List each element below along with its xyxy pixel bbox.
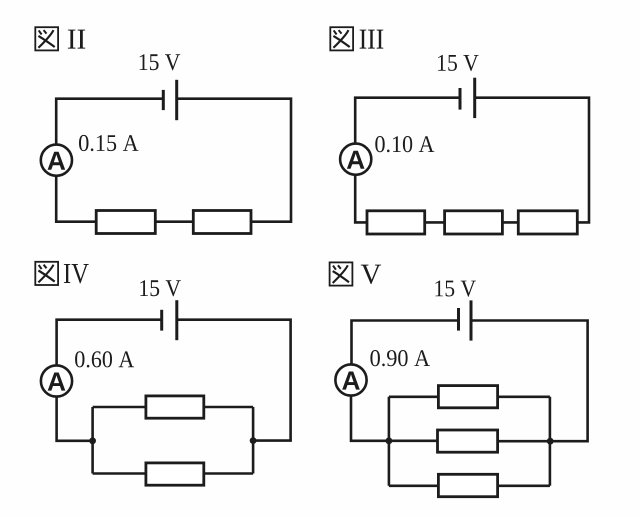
ammeter A1 letter xyxy=(48,152,66,170)
wire top-left run 図III xyxy=(355,98,460,144)
wire top-right + right side 図V xyxy=(471,321,588,442)
ammeter A2 circle xyxy=(340,144,371,175)
resistor R7 (図IV lower box) xyxy=(146,463,204,485)
battery B1 short plate (negative) xyxy=(162,90,165,110)
right branch vertical 図IV xyxy=(252,407,255,474)
wire between resistors 図II xyxy=(155,220,193,223)
label 図 (kanji) for 図V xyxy=(330,262,353,285)
wire bottom branch right stub 図V xyxy=(498,484,550,487)
resistor R3 (図III left box) xyxy=(367,211,425,234)
resistor R10 (図V bottom box) xyxy=(438,474,497,496)
battery B4 short plate (negative) xyxy=(457,308,460,331)
ammeter reading 0.15 A xyxy=(79,135,139,151)
wire left-bottom run 図II xyxy=(56,176,96,222)
ammeter reading 0.90 A xyxy=(370,350,430,366)
left branch vertical 図V xyxy=(388,397,391,486)
battery B4 long plate (positive) xyxy=(470,300,473,340)
ammeter A4 circle xyxy=(335,364,366,395)
wire top-left run 図V xyxy=(352,321,459,365)
wire middle branch right stub 図V xyxy=(498,440,551,443)
junction dot right 図V xyxy=(547,438,554,445)
battery B3 short plate (negative) xyxy=(160,310,163,331)
ammeter A2 letter xyxy=(347,151,365,169)
battery B2 long plate (positive) xyxy=(473,78,476,118)
label 図 (kanji) for 図II xyxy=(35,27,58,50)
ammeter A4 letter xyxy=(342,372,360,390)
resistor R9 (図V middle box) xyxy=(438,430,498,452)
wire ammeter to left junction 図IV xyxy=(57,397,93,441)
wire top-right + right side 図III xyxy=(475,98,589,223)
ammeter reading 0.60 A xyxy=(75,351,134,367)
battery label 15 V (図V) xyxy=(435,281,476,297)
wire upper branch right stub 図IV xyxy=(204,406,253,409)
ammeter A3 circle xyxy=(41,365,72,396)
ammeter A1 circle xyxy=(41,145,72,176)
junction dot left 図IV xyxy=(89,437,96,444)
right branch vertical 図V xyxy=(549,397,552,486)
label III for 図III xyxy=(360,30,384,49)
label IV for 図IV xyxy=(64,264,89,283)
label V for 図V xyxy=(361,265,381,284)
ammeter reading 0.10 A xyxy=(375,136,434,152)
label II for 図II xyxy=(68,30,85,49)
ammeter A3 letter xyxy=(48,373,66,391)
junction dot right 図IV xyxy=(250,437,257,444)
wire top-right + right side 図IV xyxy=(177,320,291,441)
resistor R4 (図III middle box) xyxy=(445,211,503,234)
resistor R8 (図V top box) xyxy=(438,386,497,408)
resistor R2 (図II right box) xyxy=(193,211,251,234)
wire left-bottom run 図III xyxy=(355,175,367,222)
wire top-left run 図II xyxy=(56,99,163,145)
wire top-right + right side 図II xyxy=(177,99,291,222)
battery label 15 V (図IV) xyxy=(140,280,181,296)
left branch vertical 図IV xyxy=(91,407,94,474)
battery B1 long plate (positive) xyxy=(175,80,178,120)
wire lower branch right stub 図IV xyxy=(204,472,253,475)
wire between R4 and R5 xyxy=(502,221,518,224)
wire top branch right stub 図V xyxy=(498,395,550,398)
battery B3 long plate (positive) xyxy=(175,300,178,340)
label 図 (kanji) for 図IV xyxy=(35,262,58,285)
resistor R1 (図II left box) xyxy=(96,211,155,234)
wire lower branch left stub 図IV xyxy=(93,472,146,475)
battery label 15 V (図III) xyxy=(438,55,479,71)
wire ammeter to left junction 図V xyxy=(351,396,389,441)
wire top branch left stub 図V xyxy=(389,395,439,398)
label 図 (kanji) for 図III xyxy=(330,27,353,50)
wire upper branch left stub 図IV xyxy=(93,406,146,409)
wire between R3 and R4 xyxy=(425,221,445,224)
wire top-left run 図IV xyxy=(57,320,162,366)
resistor R6 (図IV upper box) xyxy=(146,396,204,418)
resistor R5 (図III right box) xyxy=(518,211,577,234)
wire bottom branch left stub 図V xyxy=(389,484,439,487)
junction dot left 図V xyxy=(386,437,393,444)
battery B2 short plate (negative) xyxy=(459,88,462,110)
battery label 15 V (図II) xyxy=(140,54,181,70)
wire middle branch left stub 図V xyxy=(389,439,438,442)
